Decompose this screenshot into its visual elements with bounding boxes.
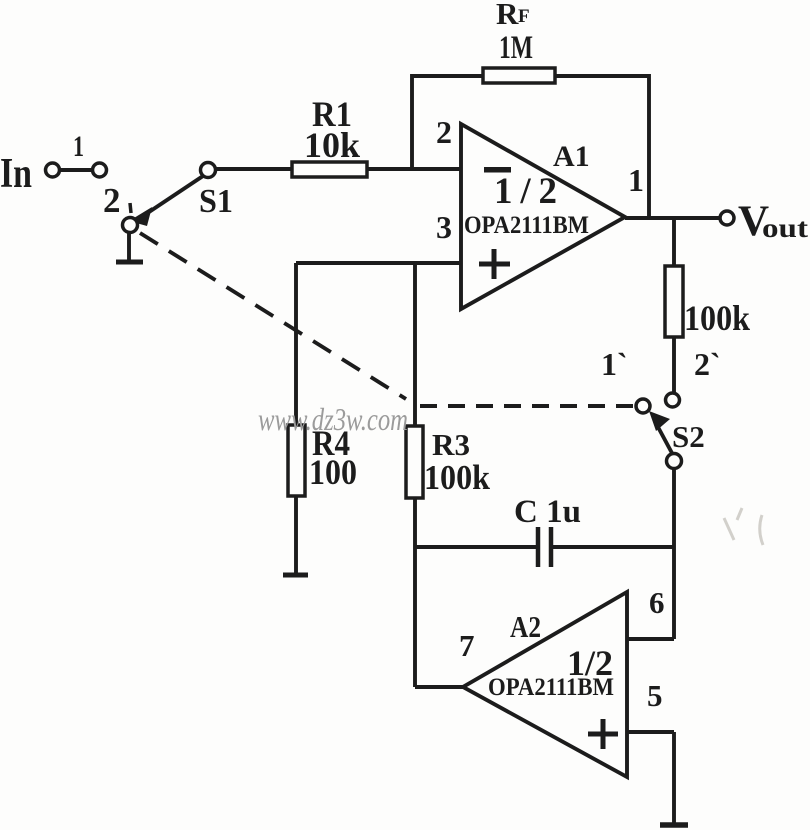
svg-text:1: 1 bbox=[73, 130, 84, 163]
svg-text:6: 6 bbox=[649, 585, 665, 620]
svg-text:A2: A2 bbox=[510, 609, 541, 644]
dashed gang link diagonal bbox=[140, 233, 406, 399]
svg-text:100k: 100k bbox=[684, 298, 750, 338]
wire: A2 apex to R3 column bbox=[415, 685, 463, 689]
switch S1 wiper arm with arrowhead bbox=[129, 176, 203, 226]
ground below R4 bbox=[283, 573, 308, 578]
svg-text:OPA2111BM: OPA2111BM bbox=[488, 674, 614, 701]
op-amp A2 triangle bbox=[463, 592, 627, 777]
wire: capacitor row bbox=[415, 545, 674, 549]
op-amp A1 triangle bbox=[461, 124, 625, 309]
wire: feedback right vertical bbox=[647, 74, 651, 218]
inverting input minus bar A1 bbox=[484, 167, 511, 173]
svg-text:2`: 2` bbox=[694, 346, 721, 382]
label RF bbox=[496, 0, 530, 31]
non-inverting plus A2 bbox=[588, 719, 618, 749]
svg-text:In: In bbox=[0, 151, 32, 197]
non-inverting plus A1 bbox=[479, 249, 510, 279]
wire: In link bbox=[60, 168, 92, 172]
svg-text:10k: 10k bbox=[304, 125, 360, 165]
svg-text:A1: A1 bbox=[553, 140, 590, 173]
terminal circle: In bbox=[46, 163, 60, 177]
faint scan artifact marks bbox=[724, 508, 763, 545]
svg-text:S2: S2 bbox=[672, 419, 705, 454]
wire: S1 to A1 pin2 through R1 bbox=[215, 167, 461, 171]
contact circle: S1 common top bbox=[201, 163, 216, 178]
svg-text:5: 5 bbox=[647, 678, 663, 713]
svg-text:F: F bbox=[518, 6, 530, 27]
svg-text:100: 100 bbox=[309, 452, 357, 492]
terminal circle: Vout bbox=[720, 211, 734, 225]
wire: feedback left vertical bbox=[410, 74, 414, 169]
wire: A1 pin3 input horizontal bbox=[296, 261, 461, 265]
wire: R3 column down to A2 apex level bbox=[413, 263, 417, 687]
wire: S2 common column down to A2 pin6 bbox=[672, 468, 676, 639]
svg-text:3: 3 bbox=[436, 209, 452, 245]
contact circle: S1 position 2 node bbox=[123, 218, 138, 233]
svg-text:S1: S1 bbox=[199, 183, 233, 220]
switch S2 wiper arm with arrowhead bbox=[649, 411, 673, 455]
capacitor C plates bbox=[538, 527, 551, 567]
svg-text:1`: 1` bbox=[601, 346, 628, 382]
svg-text:C 1u: C 1u bbox=[514, 494, 581, 530]
wire: A1 output bbox=[625, 216, 720, 220]
resistor RF body bbox=[483, 68, 555, 83]
wire: A2 pin6 to S2 column bbox=[627, 637, 674, 641]
svg-text:1/2: 1/2 bbox=[494, 171, 557, 212]
svg-text:100k: 100k bbox=[424, 458, 490, 497]
wire: feedback top horizontal bbox=[412, 74, 649, 78]
ground below pin5 bbox=[660, 822, 688, 828]
resistor R3 body bbox=[406, 426, 423, 498]
contact circle: S2 common bbox=[667, 454, 682, 469]
wire: R4 column bbox=[294, 263, 298, 575]
svg-text:OPA2111BM: OPA2111BM bbox=[464, 212, 589, 239]
svg-text:www.dz3w.com: www.dz3w.com bbox=[258, 401, 408, 437]
resistor R4 body bbox=[288, 425, 305, 496]
svg-text:R: R bbox=[496, 0, 519, 31]
contact circle: S2 position 1 bbox=[636, 399, 650, 413]
wire: 100k column from output bbox=[672, 218, 676, 394]
svg-text:R3: R3 bbox=[432, 427, 470, 462]
contact circle: S2 position 2 bbox=[666, 393, 680, 407]
svg-text:7: 7 bbox=[459, 628, 475, 663]
svg-text:2: 2 bbox=[103, 181, 121, 220]
svg-text:1: 1 bbox=[628, 162, 644, 198]
svg-text:out: out bbox=[762, 213, 808, 243]
dashed gang link horizontal bbox=[420, 404, 634, 408]
resistor R1 body bbox=[292, 162, 367, 177]
wire: A2 pin5 out bbox=[627, 730, 674, 734]
svg-text:2: 2 bbox=[436, 114, 452, 150]
svg-text:1M: 1M bbox=[499, 30, 533, 66]
label Vout bbox=[738, 198, 808, 245]
ground at S1 position 2 bbox=[116, 232, 143, 262]
wire: pin5 ground column bbox=[672, 732, 676, 824]
resistor 100k body bbox=[665, 266, 683, 337]
contact circle: S1 position 1 bbox=[93, 163, 107, 177]
